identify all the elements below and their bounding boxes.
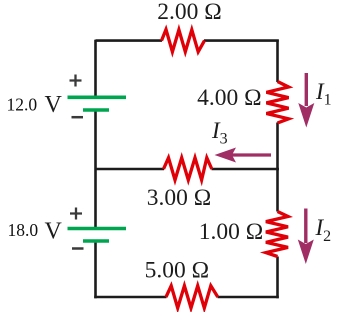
wire: left side, node A to battery V2 + plate [94, 169, 97, 229]
current arrow I1 (downward, right of 4.00 Ω) [298, 73, 314, 128]
svg-text:V: V [45, 219, 63, 245]
svg-text:4.00 Ω: 4.00 Ω [197, 85, 261, 111]
wire: right side, resistor 4.00 Ω to node B [276, 123, 279, 171]
resistor 5.00 Ω (bottom) [166, 286, 218, 308]
battery V1 minus sign [72, 116, 84, 119]
current arrow I2 (downward, right of 1.00 Ω) [298, 209, 314, 265]
wire: left side, battery V1 - plate to node A [94, 110, 97, 169]
wire: left side, battery V2 - plate to bottom corner [94, 241, 97, 298]
battery V1 plus sign [70, 75, 82, 87]
battery V1 (12.0 V): long positive plate [68, 96, 127, 100]
current arrow I3 (leftward, above 3.00 Ω) [215, 148, 272, 163]
wire: right side, top corner to resistor 4.00 Ω [276, 40, 279, 82]
wire: right side, resistor 1.00 Ω to bottom corner [276, 257, 279, 299]
wire: bottom side, left of resistor 5.00 Ω [94, 296, 166, 299]
resistor 1.00 Ω (right lower) [266, 212, 288, 257]
resistor 4.00 Ω (right upper) [266, 82, 288, 124]
svg-text:2.00 Ω: 2.00 Ω [157, 0, 221, 25]
wire: top side, left of resistor 2.00 Ω [96, 39, 163, 42]
wire: middle branch, resistor 3.00 Ω to node B [212, 168, 280, 171]
svg-text:5.00 Ω: 5.00 Ω [145, 258, 209, 284]
svg-text:1.00 Ω: 1.00 Ω [199, 219, 263, 245]
wire: bottom side, right of resistor 5.00 Ω [218, 296, 279, 299]
wire: left side, top corner to battery V1 + plate [94, 40, 97, 98]
svg-text:12.0: 12.0 [7, 95, 38, 115]
battery V1: short negative plate [83, 108, 109, 112]
resistor 3.00 Ω (middle branch) [164, 158, 212, 180]
svg-text:V: V [45, 92, 63, 118]
battery V2 (18.0 V): long positive plate [68, 227, 127, 231]
battery V2 plus sign [70, 208, 82, 220]
svg-text:3.00 Ω: 3.00 Ω [147, 185, 211, 211]
wire: top side, right of resistor 2.00 Ω [204, 39, 279, 42]
resistor 2.00 Ω (top) [162, 29, 205, 51]
battery V2: short negative plate [83, 239, 109, 243]
wire: middle branch, node A to resistor 3.00 Ω [96, 168, 165, 171]
svg-text:18.0: 18.0 [8, 220, 39, 240]
wire: right side, node B to resistor 1.00 Ω [276, 169, 279, 212]
battery V2 minus sign [72, 247, 84, 250]
